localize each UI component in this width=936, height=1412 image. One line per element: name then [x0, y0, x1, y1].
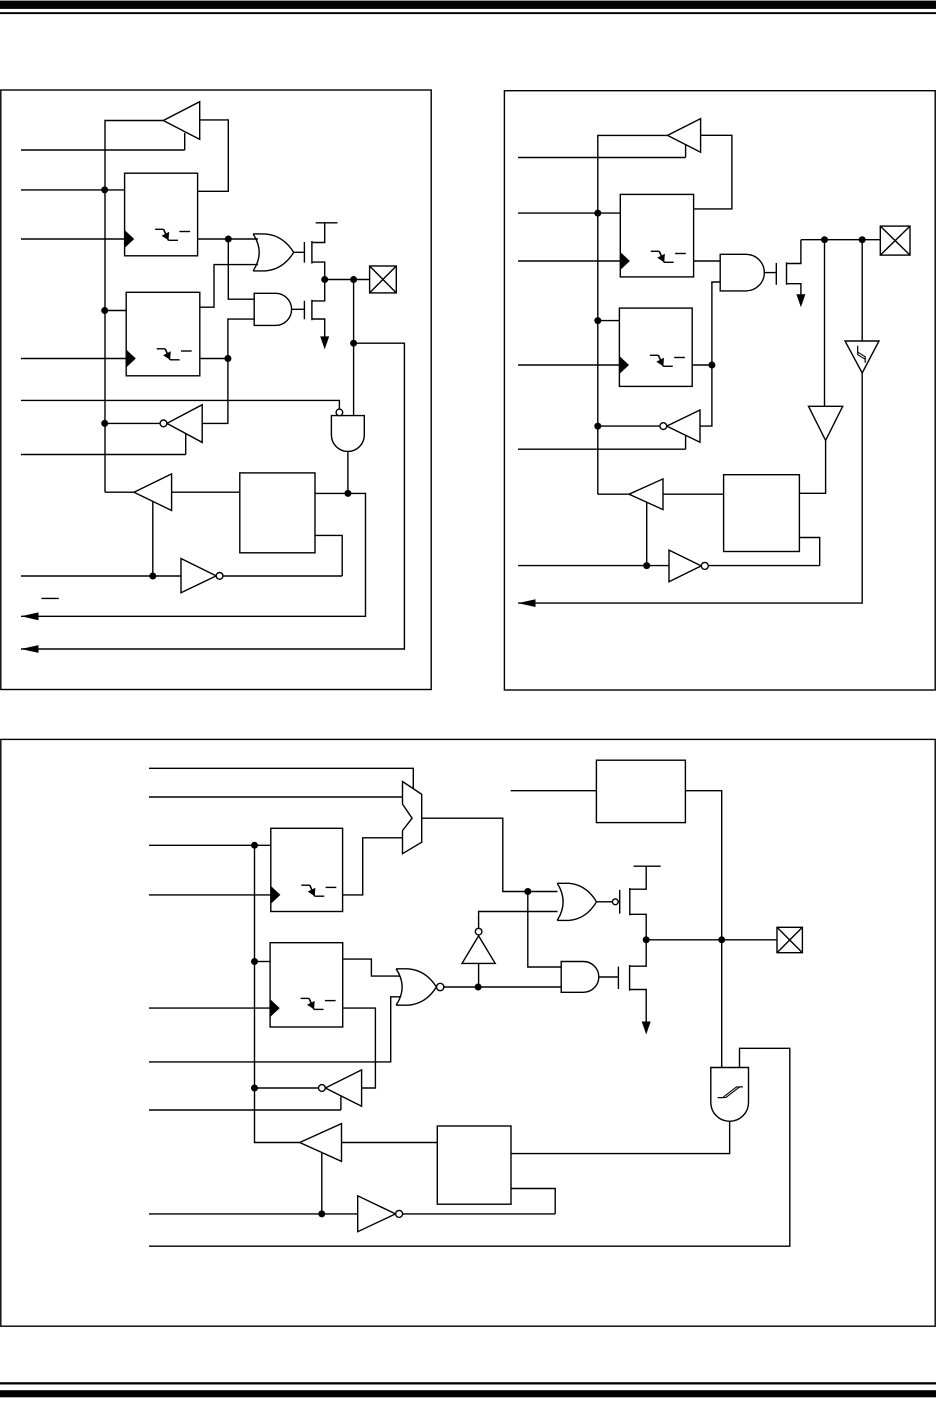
buffer U8 read buffer — [629, 479, 663, 510]
VDD supply bar — [316, 222, 338, 224]
latch edge-symbol falling edge — [165, 349, 170, 360]
wire TRIS latch top output to OR gate bottom input — [200, 265, 258, 308]
wire to output arrow 2 — [21, 343, 404, 649]
figure 1 border frame — [1, 90, 431, 690]
block B1 box — [240, 473, 315, 553]
wire clock input — [518, 260, 620, 262]
latch edge-symbol low bar — [315, 895, 325, 897]
junction dot — [821, 236, 828, 243]
latch clock input triangle — [126, 350, 136, 368]
I/O pad pin symbol — [370, 266, 397, 293]
wire clock input — [21, 238, 125, 240]
latch clock input triangle — [620, 252, 630, 270]
I/O pad pin symbol — [880, 226, 910, 255]
overline dash — [41, 597, 58, 599]
latch edge-symbol low bar — [664, 261, 674, 263]
page top thick rule — [0, 1, 936, 9]
junction dot — [350, 340, 357, 347]
NOR G5 output bubble — [612, 899, 618, 905]
VSS arrow — [642, 1022, 651, 1035]
wire B4 lower output to N11 — [511, 1189, 555, 1214]
wire U5 input from latch Q — [694, 135, 732, 209]
wire TRIS clock input — [21, 358, 126, 360]
junction dot — [708, 362, 715, 369]
wire data bus rail — [255, 845, 300, 1142]
wire N9 output to NOR bottom input — [479, 912, 558, 929]
latch edge-symbol falling edge — [658, 355, 663, 366]
figure 2 border frame — [504, 91, 935, 690]
inverter N9 bubble — [475, 928, 482, 935]
inverter N1 bubble — [160, 420, 167, 427]
wire output node — [325, 279, 370, 281]
multiplexer M1 — [403, 782, 422, 854]
wire data input D — [518, 212, 620, 214]
wire U11 input from B4 — [342, 1142, 438, 1144]
latch edge-symbol top bar — [651, 250, 660, 252]
junction dot — [643, 936, 650, 943]
NOR G7 output bubble — [437, 983, 444, 990]
latch U7 TRIS latch box — [619, 308, 692, 386]
wire U5 output to rail — [598, 135, 668, 494]
transistor Q2 N-channel — [292, 280, 325, 339]
VSS arrow — [796, 294, 805, 307]
wire NAND output — [347, 451, 349, 493]
wire MUX output to NOR gate — [422, 818, 558, 891]
latch edge-symbol low bar — [168, 239, 178, 241]
wire input line 1 with enable stub — [21, 133, 185, 150]
junction dot — [594, 210, 601, 217]
junction dot — [251, 842, 258, 849]
wire branch to AND gate top input — [528, 892, 561, 968]
wire T2 output to port read arrow — [518, 373, 862, 603]
wire N9 input stub — [478, 963, 480, 987]
VDD supply bar — [634, 865, 661, 867]
wire N11 output — [403, 1213, 556, 1215]
junction dot — [251, 958, 258, 965]
wire U4 input from B1 — [172, 491, 240, 493]
wire input line B to MUX — [149, 796, 403, 798]
figure 3 border frame — [1, 739, 935, 1326]
NAND G3 input bubble — [336, 409, 343, 416]
transistor Q3 N-channel open drain — [764, 240, 801, 297]
latch edge-symbol low bar — [663, 365, 673, 367]
inverter N6 — [667, 410, 700, 442]
wire G8 right input from bottom line — [149, 1048, 790, 1246]
inverter N1 — [167, 405, 202, 443]
NAND gate G3 — [331, 416, 364, 452]
wire N1 output to rail — [105, 422, 160, 424]
wire latch Q to AND gate — [694, 260, 721, 262]
page bottom thin rule — [0, 1382, 936, 1384]
inverter N11 bubble — [396, 1210, 403, 1217]
wire input line A to MUX — [149, 768, 413, 788]
latch edge-symbol falling edge — [659, 251, 664, 262]
wire NOR G5 output to bubble — [597, 901, 613, 903]
block B2 box — [724, 475, 800, 552]
wire N3 input line — [21, 575, 181, 577]
wire enable input line with stub — [149, 1096, 341, 1110]
wire T1 output to block B2 — [799, 440, 825, 493]
Schmitt trigger T2 (downward) — [845, 341, 879, 373]
transistor Q4 P-channel — [618, 866, 646, 940]
latch edge-symbol high dash — [179, 231, 190, 233]
junction dot — [149, 573, 156, 580]
wire N7 output — [708, 565, 819, 567]
latch edge-symbol arrowhead — [656, 358, 664, 366]
wire stub to U8 enable — [646, 502, 648, 565]
wire clock input — [149, 894, 271, 896]
inverter N11 — [358, 1196, 396, 1232]
junction dot — [344, 490, 351, 497]
wire U1 input from latch Q — [198, 120, 229, 191]
inverter N10 bubble — [319, 1085, 326, 1092]
junction dot — [350, 276, 357, 283]
wire N3 output — [223, 575, 342, 577]
NOR gate G7 — [396, 969, 436, 1005]
Schmitt AND gate G8 — [711, 1068, 749, 1122]
wire G8 output to block B4 — [511, 1121, 730, 1153]
latch edge-symbol arrowhead — [307, 1001, 315, 1009]
VSS arrow — [320, 336, 329, 349]
junction dot — [101, 420, 108, 427]
latch edge-symbol low bar — [170, 359, 180, 361]
junction dot — [718, 936, 725, 943]
latch edge-symbol arrowhead — [308, 888, 316, 896]
wire AND bottom input / inverter N6 input — [700, 282, 720, 426]
Schmitt T2 slew symbol — [858, 346, 866, 363]
wire U1 output to rail — [105, 121, 163, 493]
AND gate G6 — [561, 962, 599, 993]
latch edge-symbol top bar — [301, 884, 310, 886]
wire U4 output to rail — [105, 491, 134, 493]
I/O pad pin symbol — [777, 927, 802, 952]
latch edge-symbol high dash — [181, 350, 192, 352]
wire TRIS Q output — [200, 358, 228, 360]
junction dot — [594, 317, 601, 324]
wire TRIS Q output — [692, 364, 712, 366]
wire AND bottom input / inverter N1 input — [202, 319, 254, 423]
wire TRIS D stub — [105, 310, 126, 312]
block B4 box — [437, 1126, 511, 1204]
junction dot — [225, 236, 232, 243]
latch edge-symbol falling edge — [164, 229, 169, 240]
wire input line to NAND bubbled input — [21, 400, 339, 409]
wire N11 input line — [149, 1213, 358, 1215]
latch edge-symbol high dash — [675, 253, 686, 255]
junction dot — [859, 236, 866, 243]
transistor Q5 N-channel — [599, 940, 646, 1024]
junction dot — [251, 1085, 258, 1092]
wire N10 output to rail — [255, 1087, 319, 1089]
Schmitt G8 slew symbol — [718, 1087, 743, 1098]
AND gate G2 — [254, 293, 291, 325]
wire TRIS D stub — [255, 961, 271, 963]
wire node down to buffer T1 — [824, 240, 826, 407]
wire branch to AND gate top input — [228, 239, 254, 299]
wire input line 1 with enable stub — [518, 145, 686, 158]
wire TRIS clock input — [149, 1007, 270, 1009]
wire N6 output to rail — [598, 425, 660, 427]
latch clock input triangle — [271, 886, 281, 904]
junction dot — [321, 276, 328, 283]
wire output node — [801, 239, 880, 241]
wire B1 output to output arrow 1 — [21, 493, 366, 616]
buffer U4 read buffer — [134, 474, 172, 511]
latch edge-symbol top bar — [301, 997, 310, 999]
junction dot — [318, 1210, 325, 1217]
wire TRIS clock input — [518, 364, 619, 366]
latch edge-symbol arrowhead — [657, 254, 665, 262]
wire G7 output to AND bottom input — [443, 986, 561, 988]
output arrowhead 1 — [21, 612, 39, 620]
latch edge-symbol arrowhead — [163, 351, 171, 359]
wire B2 lower output to N7 — [799, 538, 819, 566]
latch edge-symbol arrowhead — [162, 232, 170, 240]
latch edge-symbol low bar — [314, 1008, 324, 1010]
wire node down to Schmitt T2 — [861, 240, 863, 341]
wire B1 lower output to N3 — [315, 535, 342, 576]
AND gate G4 — [720, 254, 764, 291]
page bottom thick rule — [0, 1390, 936, 1397]
wire U8 input from B2 — [663, 493, 724, 495]
wire latch Q to OR gate — [198, 238, 258, 240]
wire data input D — [21, 189, 125, 191]
junction dot — [475, 984, 482, 991]
junction dot — [643, 562, 650, 569]
wire latch Q to MUX lower input — [343, 838, 403, 895]
latch edge-symbol falling edge — [310, 885, 315, 896]
block B3 box — [596, 760, 685, 822]
latch U9 data latch box — [271, 828, 343, 911]
wire U8 output to rail — [598, 493, 629, 495]
transistor Q1 P-channel — [294, 223, 325, 280]
inverter N3 — [181, 559, 216, 593]
wire stub to U11 enable — [321, 1153, 323, 1214]
wire input line to G7 bottom input — [149, 997, 400, 1062]
latch edge-symbol top bar — [650, 354, 659, 356]
NOR gate G5 — [557, 883, 596, 920]
latch U6 data latch box — [620, 194, 693, 277]
output arrowhead 2 — [21, 645, 39, 653]
OR gate G1 — [253, 234, 294, 271]
wire TRIS D stub — [598, 320, 620, 322]
latch edge-symbol top bar — [157, 348, 166, 350]
inverter N6 bubble — [660, 423, 667, 430]
junction dot — [524, 888, 531, 895]
wire enable input line with stub — [21, 434, 186, 455]
latch edge-symbol falling edge — [309, 998, 314, 1009]
wire node to NAND right input — [353, 280, 355, 416]
page top thin rule — [0, 12, 936, 14]
latch edge-symbol top bar — [155, 228, 164, 230]
inverter N9 (upward) — [462, 936, 495, 964]
latch clock input triangle — [619, 356, 629, 374]
wire B3 output down to Schmitt gate — [685, 791, 721, 1068]
junction dot — [101, 307, 108, 314]
latch edge-symbol high dash — [326, 886, 337, 888]
wire enable input line with stub — [518, 435, 686, 449]
latch clock input triangle — [270, 999, 280, 1017]
buffer T1 (downward) — [809, 406, 843, 440]
latch U2 data latch box — [125, 173, 198, 256]
latch clock input triangle — [125, 230, 135, 248]
wire B3 input — [511, 790, 597, 792]
junction dot — [101, 186, 108, 193]
latch U10 TRIS latch box — [270, 943, 343, 1027]
inverter N7 — [669, 550, 701, 582]
wire output node — [646, 939, 777, 941]
inverter N3 bubble — [216, 573, 223, 580]
wire stub to U4 enable — [152, 501, 154, 576]
output arrowhead — [518, 599, 536, 607]
buffer U1 output driver — [163, 102, 199, 140]
inverter N7 bubble — [701, 562, 708, 569]
inverter N10 — [325, 1070, 361, 1106]
wire TRIS Q to inverter N10 — [343, 1008, 376, 1088]
latch edge-symbol high dash — [674, 357, 685, 359]
latch U3 TRIS latch box — [126, 292, 200, 376]
junction dot — [224, 355, 231, 362]
buffer U11 read buffer — [300, 1124, 342, 1162]
wire TRIS top output to G7 top input — [343, 959, 400, 976]
wire data input D — [149, 844, 271, 846]
junction dot — [594, 423, 601, 430]
latch edge-symbol high dash — [325, 1000, 336, 1002]
buffer U5 open-drain driver — [668, 119, 701, 153]
wire N7 input line — [518, 565, 669, 567]
